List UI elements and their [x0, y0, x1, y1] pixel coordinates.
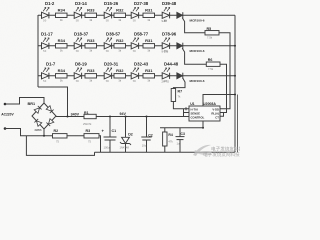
wire gate VS2: [182, 48, 206, 64]
LED value mark row3 pos2: [76, 80, 79, 83]
terminal AC N: [4, 127, 7, 130]
resistor R33 row3: [85, 68, 97, 82]
thyristor VS2 MCR100-6: [177, 43, 205, 53]
watermark logo: [193, 145, 212, 156]
junction C2 rail: [146, 116, 148, 118]
LED D1-17: [41, 32, 53, 49]
wire 94V rail: [96, 116, 189, 118]
wire gate VS1: [182, 18, 205, 33]
junction row2 bus: [234, 45, 236, 47]
resistor R34 row1: [56, 8, 68, 22]
watermark text: [203, 146, 244, 159]
capacitor C2: [141, 117, 153, 153]
LED value mark row2 pos4: [133, 50, 136, 53]
wire cathode bus: [234, 15, 236, 152]
wire AC L: [5, 98, 44, 105]
resistor R33 row2: [85, 38, 97, 52]
wire LED row 3: [38, 75, 235, 77]
wire AC N: [5, 129, 53, 136]
LED value mark row1 pos3: [106, 20, 109, 23]
wire U1 bottom pin: [202, 121, 204, 129]
capacitor C3: [176, 128, 185, 153]
LED value mark row3 pos1: [43, 80, 46, 83]
LED D44-48: [162, 62, 179, 79]
wire left bus vertical: [37, 15, 39, 87]
resistor R34 row2: [56, 38, 68, 52]
LED D20-31: [104, 62, 119, 79]
LED D15-26: [104, 1, 119, 18]
resistor R2: [53, 129, 68, 143]
LED value mark row1 pos1: [43, 20, 46, 23]
resistor R31 row3: [143, 68, 155, 82]
terminal AC L: [4, 103, 7, 106]
wire U1 top pin to bus: [203, 94, 236, 107]
LED D32-43: [131, 62, 149, 79]
wire right edge second line: [236, 95, 238, 153]
label AC220V: [1, 113, 14, 117]
wire bottom bus: [95, 151, 236, 153]
LED value mark row1 pos5: [164, 20, 167, 23]
wire R5 to U1 pin: [219, 33, 230, 109]
resistor R32 row3: [114, 68, 126, 82]
zener diode D2: [120, 117, 133, 153]
LED D27-38: [131, 1, 149, 18]
LED value mark row3 pos4: [133, 80, 136, 83]
wire R6 to U1 pin: [220, 64, 227, 112]
resistor R7: [171, 89, 182, 102]
wire U1 left pin strap: [184, 107, 190, 116]
thyristor VS3 MCR100-6: [177, 73, 205, 83]
capacitor C1: [102, 117, 117, 153]
thyristor VS1 MCR100-6: [177, 12, 205, 22]
junction D2 rail: [125, 116, 127, 118]
label 94V: [120, 112, 127, 116]
resistor R1: [83, 111, 96, 126]
IC U1 U2008A: [189, 102, 220, 121]
LED value mark row2 pos2: [76, 50, 79, 53]
LED D8-19: [74, 62, 87, 79]
LED value mark row3 pos3: [106, 80, 109, 83]
LED D1-7: [42, 62, 56, 79]
wire bridge bottom: [43, 129, 45, 136]
wire LED row 2: [38, 45, 235, 47]
LED D1-2: [42, 1, 55, 18]
resistor R4: [163, 128, 174, 153]
resistor R34 row3: [56, 68, 68, 82]
label 340V: [71, 112, 80, 116]
wire low bus: [26, 136, 94, 156]
wire gate VS3: [173, 78, 185, 88]
junction 340V node: [67, 116, 69, 118]
junction bridge-AC: [43, 135, 45, 137]
LED value mark row3 pos5: [164, 80, 167, 83]
LED sublabel row1: [162, 19, 168, 23]
LED value mark row2 pos3: [106, 50, 109, 53]
resistor R32 row2: [114, 38, 126, 52]
LED D3-14: [74, 1, 87, 18]
resistor R5: [205, 27, 219, 40]
resistor R31 row1: [143, 8, 155, 22]
LED sublabel row2: [162, 49, 169, 53]
wire R7 to U1 pin: [173, 102, 189, 109]
junction row3 bus: [234, 75, 236, 77]
LED value mark row2 pos1: [43, 50, 46, 53]
LED D78-96: [162, 32, 177, 49]
LED value mark row1 pos4: [133, 20, 136, 23]
LED D58-77: [131, 32, 149, 49]
wire R3 to bus: [99, 136, 101, 153]
wire left bus jog: [38, 87, 68, 117]
LED sublabel row3: [162, 79, 170, 83]
resistor R33 row1: [85, 8, 97, 22]
junction C1 rail: [109, 116, 111, 118]
LED value mark row1 pos2: [76, 20, 79, 23]
LED D38-57: [104, 32, 121, 49]
LED value mark row2 pos5: [164, 50, 167, 53]
wire timing rail: [160, 127, 203, 129]
resistor R31 row2: [143, 38, 155, 52]
LED D18-37: [74, 32, 89, 49]
resistor R32 row1: [114, 8, 126, 22]
wire LED row 1: [38, 14, 235, 16]
wire bridge to R1: [56, 116, 84, 118]
wire U1 right pin3 strap: [220, 113, 224, 117]
bridge rectifier BR1: [28, 102, 57, 132]
resistor R6: [206, 58, 220, 71]
LED D39-48: [162, 1, 177, 18]
wire R2-R3: [67, 135, 84, 137]
resistor R3: [84, 129, 99, 143]
